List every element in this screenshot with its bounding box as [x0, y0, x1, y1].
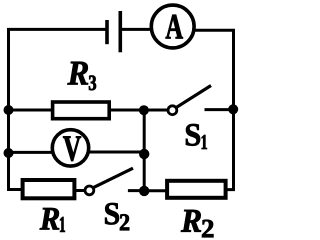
label R1 [40, 208, 65, 232]
wire: voltmeter row, left rail to voltmeter [9, 151, 54, 154]
node: junction left rail / R3 row [4, 105, 14, 115]
node: junction middle branch / bottom row [139, 186, 149, 196]
switch S1 blade (open) [177, 86, 212, 108]
label S1 [186, 124, 207, 149]
wire: S2 fixed contact stub to middle branch [128, 189, 144, 192]
switch S2 blade (open) [93, 168, 133, 187]
wire: middle branch to R2 [144, 189, 167, 192]
wire: R1 to switch S2 pivot [74, 189, 85, 192]
wire: S1 fixed contact stub to right rail [205, 108, 234, 111]
switch S2 pivot circle [85, 186, 94, 195]
node: junction middle branch / voltmeter row [139, 149, 149, 159]
node: junction R3 row / middle branch [139, 105, 149, 115]
resistor R3 body [53, 102, 110, 119]
wire: ammeter to top-right corner, right rail down into R2 [195, 30, 234, 189]
wire: battery positive plate to ammeter [121, 28, 151, 31]
label R3 [68, 62, 97, 90]
resistor R1 body [23, 180, 75, 198]
wire: R3 row, left rail to R3 [9, 109, 54, 112]
wire: middle vertical branch [143, 110, 146, 191]
voltmeter V circle [52, 130, 88, 166]
wire: R3 to switch S1 pivot [109, 109, 169, 112]
label S2 [105, 203, 129, 230]
switch S1 pivot circle [168, 106, 177, 115]
node: junction right rail / S1 row [228, 104, 238, 114]
node: junction left rail / voltmeter row [4, 148, 14, 158]
ammeter label A [166, 15, 183, 39]
wire: top-left from battery negative, left rail, bottom-left into R1 [9, 29, 107, 189]
voltmeter label V [63, 136, 81, 161]
battery cell: short negative plate [105, 20, 109, 44]
resistor R2 body [167, 181, 226, 198]
battery cell: long positive plate [119, 11, 123, 52]
wire: voltmeter to middle branch [89, 151, 145, 154]
label R2 [181, 210, 213, 237]
ammeter A circle [151, 5, 194, 48]
